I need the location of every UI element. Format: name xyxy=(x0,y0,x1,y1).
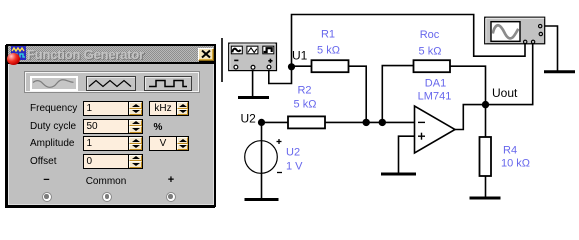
svg-text:U1: U1 xyxy=(292,49,308,63)
wire node U2 through source U2 to ground xyxy=(261,122,263,198)
wire node U1 across top to oscilloscope channel A terminal xyxy=(292,15,526,68)
ground below function generator xyxy=(238,96,269,99)
ground below source U2 xyxy=(245,198,279,201)
wire XFG1 plus terminal to node U1 xyxy=(269,67,292,84)
resistor Roc xyxy=(414,60,451,72)
value label LM741 of DA1 xyxy=(418,91,452,103)
oscilloscope instrument icon XSC1 xyxy=(485,17,545,44)
svg-text:R2: R2 xyxy=(297,85,311,97)
label R4 xyxy=(503,145,517,157)
svg-text:LM741: LM741 xyxy=(418,91,452,103)
wire op-amp DA1 noninverting input to ground xyxy=(399,136,415,172)
label DA1 xyxy=(425,78,446,90)
wire resistor R1 right pin to junction node A xyxy=(349,66,367,122)
wire node U1 to resistor R1 left pin xyxy=(292,65,312,67)
value label 5 kOhm of Roc xyxy=(419,46,442,58)
node U1 (junction dot) xyxy=(288,63,295,70)
voltage source U2 xyxy=(245,139,282,173)
svg-text:U2: U2 xyxy=(286,147,300,159)
wire (partially hidden behind dialog) xyxy=(221,38,223,82)
svg-text:10 kΩ: 10 kΩ xyxy=(501,158,530,170)
svg-text:DA1: DA1 xyxy=(425,78,446,90)
svg-text:5 kΩ: 5 kΩ xyxy=(294,99,317,111)
wire op-amp DA1 output to node Uout xyxy=(455,105,486,130)
resistor R1 xyxy=(312,60,349,72)
pin channel A terminal of XSC1 xyxy=(524,40,527,43)
ground below R4 xyxy=(470,197,501,200)
value label 1 V of source U2 xyxy=(286,161,303,173)
resistor R2 xyxy=(288,116,325,128)
svg-text:U2: U2 xyxy=(241,112,257,126)
wire oscilloscope ground terminal to ground xyxy=(542,26,558,71)
wire node U2 to resistor R2 left pin xyxy=(262,121,289,123)
node U2 (junction dot) xyxy=(258,119,265,126)
pin plus terminal of XFG1 xyxy=(267,65,271,69)
label U2 (source designator) xyxy=(286,147,300,159)
Function Generator dialog window xyxy=(6,44,216,207)
wire node Uout down to resistor R4 top pin xyxy=(485,105,487,137)
svg-text:1 V: 1 V xyxy=(286,161,303,173)
pin common terminal of XFG1 xyxy=(251,65,255,69)
junction node A xyxy=(363,119,370,126)
svg-text:R4: R4 xyxy=(503,145,517,157)
svg-text:Roc: Roc xyxy=(420,29,440,41)
label node U1 xyxy=(292,49,308,63)
pin minus terminal of XFG1 xyxy=(234,65,238,69)
svg-text:R1: R1 xyxy=(321,29,335,41)
svg-text:5 kΩ: 5 kΩ xyxy=(317,45,340,57)
junction node B xyxy=(379,119,386,126)
wire resistor R2 right pin to junction node A xyxy=(325,121,366,123)
node Uout (junction dot) xyxy=(482,101,489,108)
wire XFG1 common terminal to ground xyxy=(252,70,254,96)
label R1 xyxy=(321,29,335,41)
label node U2 xyxy=(241,112,257,126)
svg-text:Uout: Uout xyxy=(492,86,518,100)
pin channel B terminal of XSC1 xyxy=(531,40,534,43)
label Roc xyxy=(420,29,440,41)
ground right of oscilloscope xyxy=(544,70,575,73)
wire junction node A to junction node B xyxy=(366,121,382,123)
ground below op-amp noninverting input xyxy=(381,173,416,176)
wire junction node B up to resistor Roc left pin xyxy=(382,66,413,123)
wire junction node B to op-amp DA1 inverting input xyxy=(382,121,414,123)
function generator instrument icon XFG1 xyxy=(229,43,277,71)
value label 10 kOhm of R4 xyxy=(501,158,530,170)
value label 5 kOhm of R1 xyxy=(317,45,340,57)
label R2 xyxy=(297,85,311,97)
label node Uout xyxy=(492,86,518,100)
pin ground terminal of XSC1 xyxy=(539,24,542,27)
wire resistor Roc right pin to node Uout xyxy=(450,66,486,104)
wire node Uout to oscilloscope channel B terminal xyxy=(486,44,533,105)
op-amp DA1 xyxy=(415,106,456,153)
svg-text:5 kΩ: 5 kΩ xyxy=(419,46,442,58)
pin trigger terminal of XSC1 xyxy=(539,32,542,35)
value label 5 kOhm of R2 xyxy=(294,99,317,111)
resistor R4 xyxy=(480,137,492,176)
wire resistor R4 bottom pin to ground xyxy=(485,176,487,197)
